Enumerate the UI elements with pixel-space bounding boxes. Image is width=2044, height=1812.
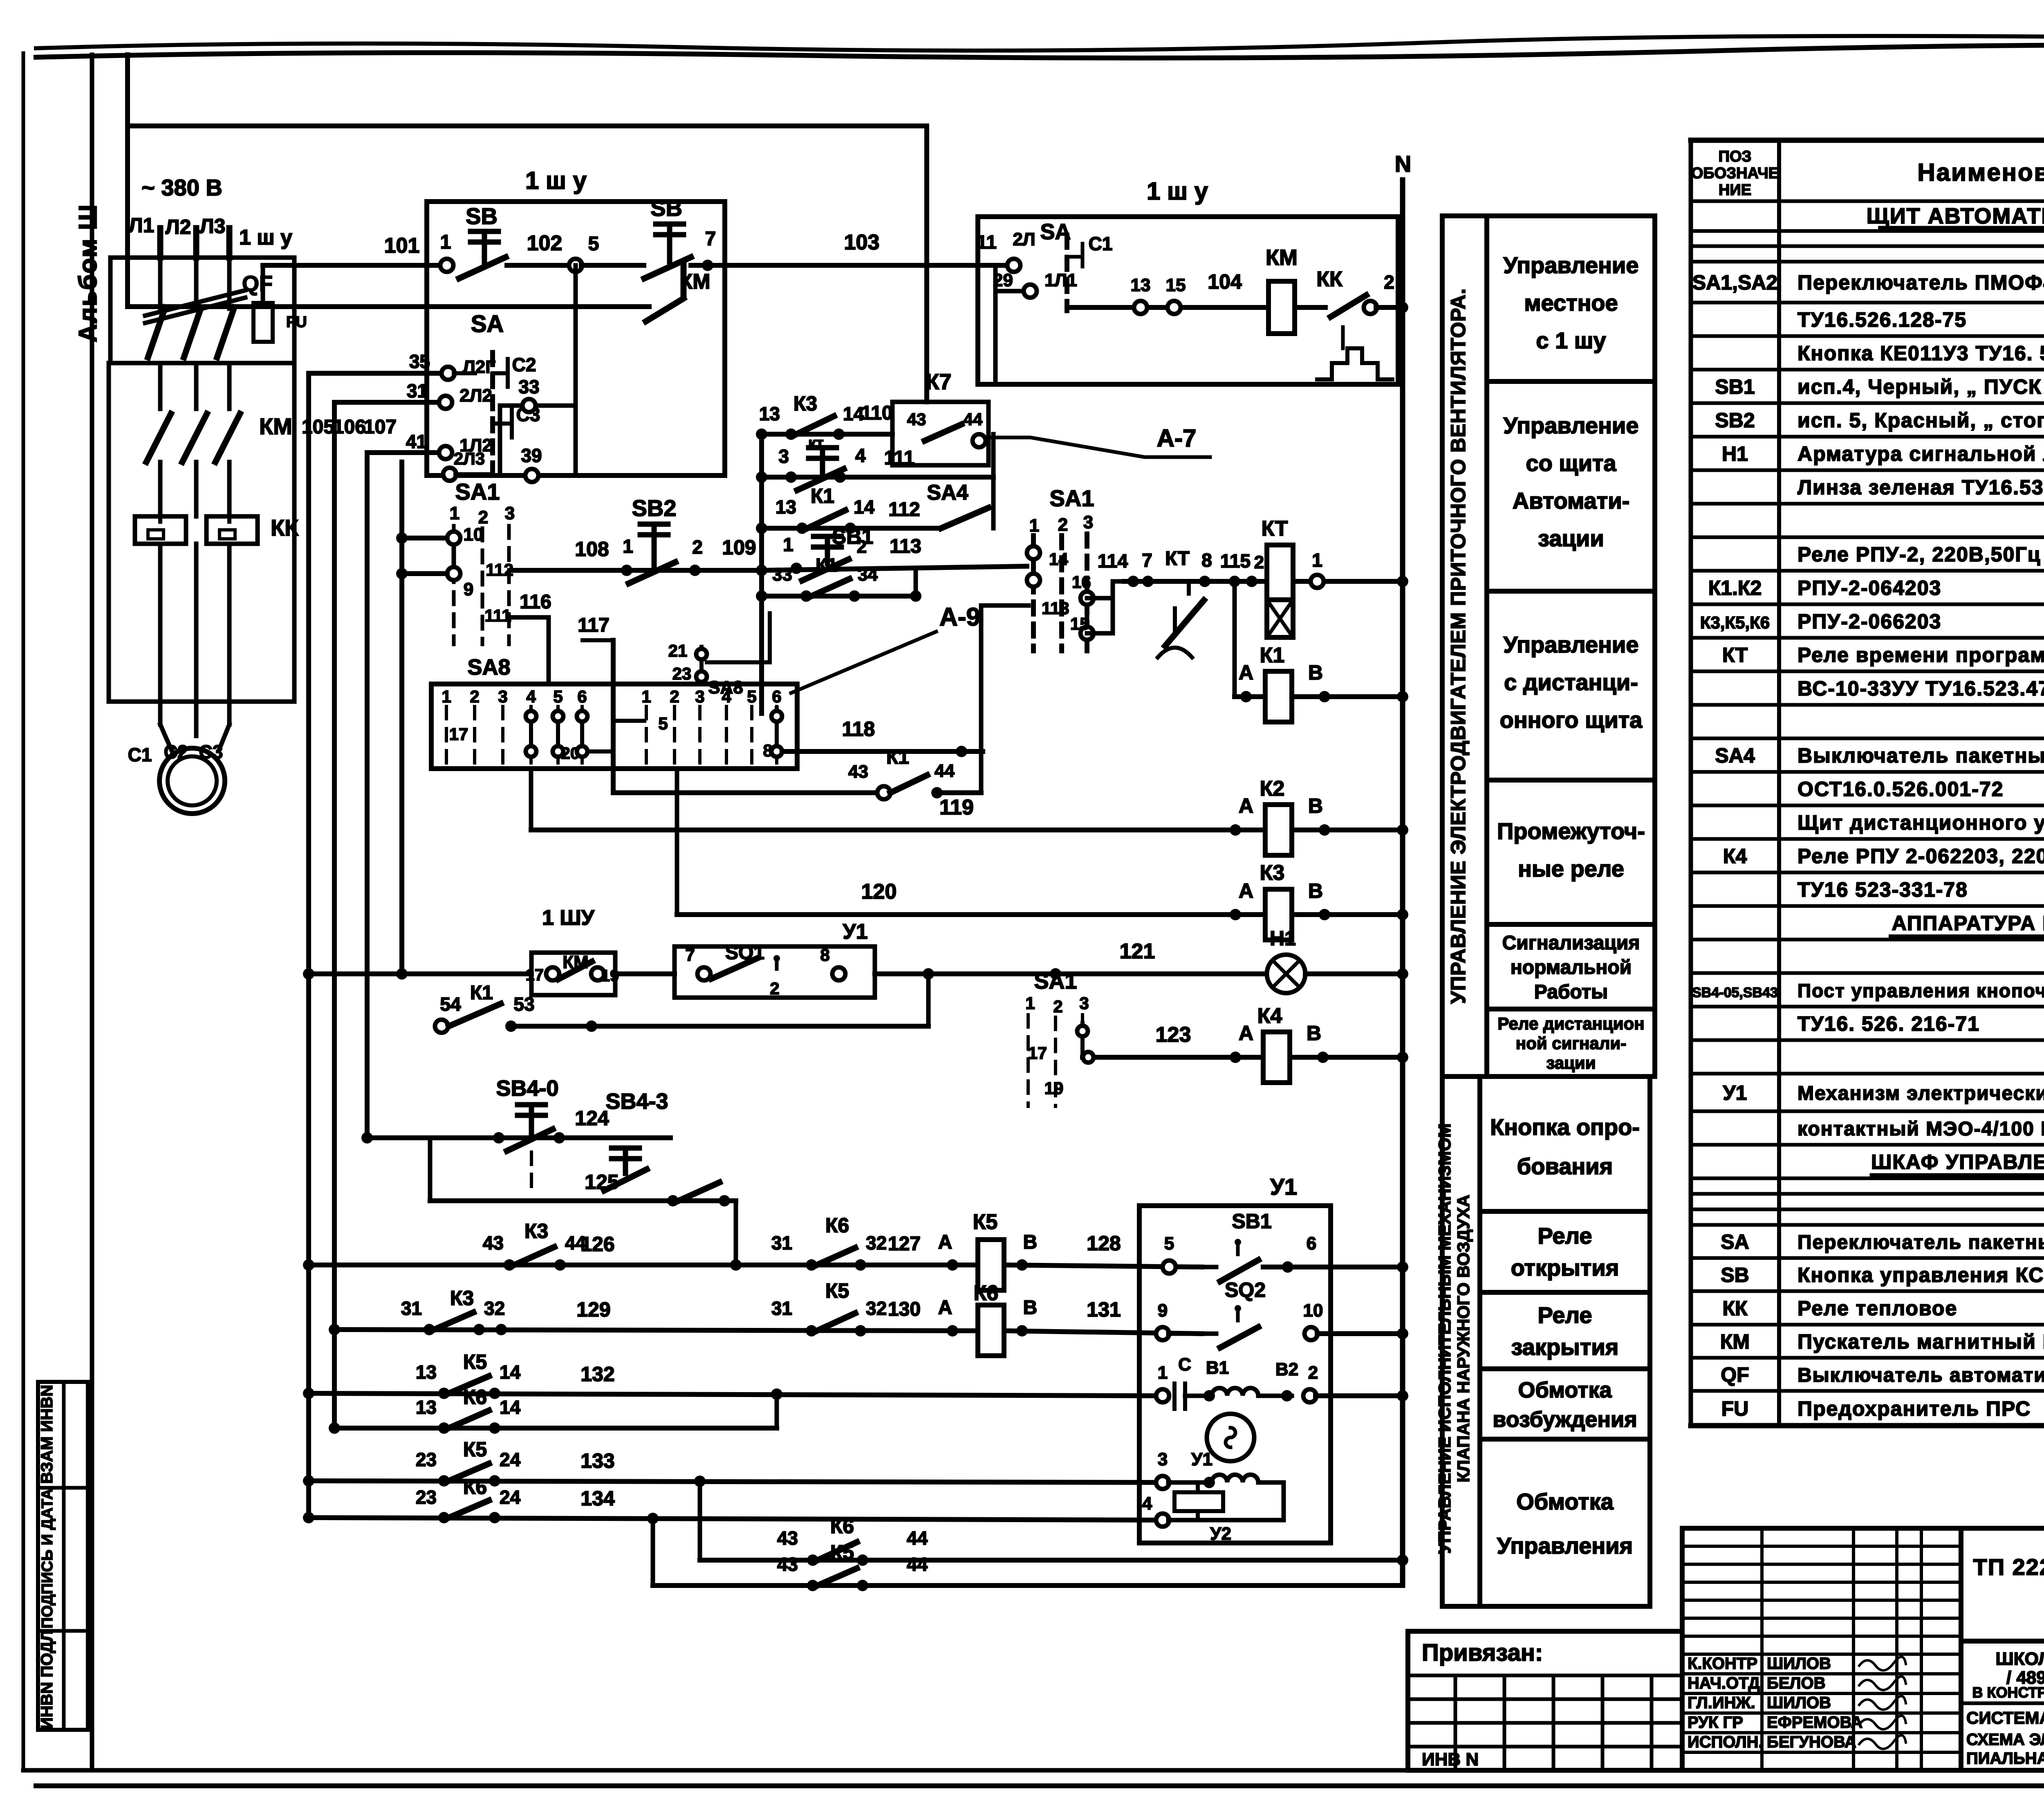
svg-text:ВС-10-33УУ ТУ16.523.476-74: ВС-10-33УУ ТУ16.523.476-74 (1797, 677, 2044, 700)
svg-text:К4: К4 (1723, 845, 1747, 868)
svg-text:FU: FU (1721, 1397, 1749, 1420)
svg-text:4: 4 (855, 445, 866, 466)
svg-text:SB: SB (1721, 1264, 1749, 1287)
svg-text:К1: К1 (886, 747, 909, 768)
svg-text:онного щита: онного щита (1500, 707, 1643, 733)
svg-text:103: 103 (844, 231, 880, 254)
svg-text:21: 21 (668, 641, 688, 660)
node 1 on 108 (621, 565, 632, 576)
svg-text:Наименование: Наименование (1917, 159, 2044, 186)
relay coil K1 rail (1235, 694, 1403, 699)
thermal release symbol (1317, 348, 1392, 379)
riser from SA1 right to 118 and K1 contact (979, 605, 984, 793)
svg-text:Привязан:: Привязан: (1422, 1639, 1543, 1666)
svg-text:К3: К3 (1260, 861, 1285, 885)
svg-text:43: 43 (848, 762, 868, 782)
wire 33-34 contact K1 (762, 594, 916, 599)
svg-text:133: 133 (580, 1449, 614, 1472)
svg-text:Управление: Управление (1504, 632, 1639, 657)
svg-text:111: 111 (884, 447, 915, 469)
svg-text:Работы: Работы (1534, 981, 1608, 1003)
school project name box (1961, 1641, 2044, 1770)
svg-text:3: 3 (695, 687, 704, 706)
svg-text:К5: К5 (463, 1350, 487, 1373)
svg-text:1 ш у: 1 ш у (239, 226, 292, 249)
svg-text:107: 107 (364, 416, 397, 438)
svg-text:117: 117 (578, 614, 609, 636)
wire 120 relay K3 (675, 771, 679, 915)
svg-text:13: 13 (775, 496, 796, 518)
svg-text:К1: К1 (1260, 644, 1285, 667)
SA8 left pin6 output (587, 749, 613, 754)
svg-text:Кнопка КЕ011У3 ТУ16. 526.407-7: Кнопка КЕ011У3 ТУ16. 526.407-76 (1797, 342, 2044, 365)
wire 101 (263, 263, 441, 268)
svg-text:возбуждения: возбуждения (1493, 1407, 1637, 1432)
ladder feed bus (759, 434, 764, 713)
svg-text:2Л: 2Л (1013, 229, 1035, 249)
pin 116 link from SA1 left (509, 615, 549, 620)
svg-text:ШИЛОВ: ШИЛОВ (1767, 1655, 1831, 1673)
node 5 (569, 259, 582, 272)
svg-text:К3: К3 (450, 1287, 474, 1310)
svg-text:54: 54 (440, 993, 461, 1015)
svg-text:Реле: Реле (1537, 1223, 1592, 1249)
SA1 left rail 9 (402, 571, 447, 576)
svg-text:Реле РПУ-2, 220В,50Гц ТУ16.523: Реле РПУ-2, 220В,50Гц ТУ16.523.331-78 (1797, 543, 2044, 566)
svg-text:14: 14 (854, 496, 875, 518)
svg-text:112: 112 (888, 499, 920, 520)
svg-text:109: 109 (722, 536, 756, 559)
function box control winding (1480, 1439, 1650, 1606)
svg-text:31: 31 (407, 380, 428, 401)
svg-text:2: 2 (1384, 271, 1394, 293)
svg-text:ОБОЗНАЧЕ: ОБОЗНАЧЕ (1691, 165, 1779, 182)
contactor coil KM (1269, 281, 1295, 334)
svg-text:43: 43 (483, 1232, 504, 1254)
svg-text:101: 101 (384, 234, 420, 258)
thermal relay KK heaters (135, 516, 186, 544)
svg-text:ТП 222-1-467. 86: ТП 222-1-467. 86 (1973, 1554, 2044, 1580)
function box intermediate relays (1487, 780, 1655, 924)
svg-text:14: 14 (500, 1397, 521, 1418)
svg-text:Переключатель пакетный ППЗ-10/: Переключатель пакетный ППЗ-10/Н3 (1797, 1232, 2044, 1254)
svg-text:Промежуточ-: Промежуточ- (1497, 818, 1645, 844)
svg-text:местное: местное (1524, 290, 1618, 316)
wire 126 rail (303, 1259, 314, 1271)
SA terminal C3 (510, 410, 514, 437)
sheet outer border left (22, 53, 25, 1770)
node 2 wire 109 (689, 565, 701, 576)
svg-text:SB2: SB2 (1715, 409, 1755, 432)
svg-text:24: 24 (500, 1487, 521, 1508)
svg-text:113: 113 (890, 536, 921, 557)
circuit breaker QF box (110, 258, 294, 363)
svg-text:121: 121 (1120, 940, 1155, 963)
svg-text:ной сигнали-: ной сигнали- (1516, 1034, 1626, 1053)
top distribution wire (128, 123, 927, 128)
svg-text:У1: У1 (1270, 1174, 1297, 1200)
project code box (1961, 1528, 2044, 1641)
wire 118 (782, 749, 983, 754)
svg-text:2: 2 (1053, 997, 1062, 1016)
svg-text:У1: У1 (1723, 1081, 1747, 1104)
svg-text:К6: К6 (825, 1214, 849, 1237)
svg-text:1: 1 (783, 534, 793, 555)
U1 bottom rail (1156, 1514, 1169, 1527)
svg-text:134: 134 (580, 1487, 615, 1510)
svg-text:SA: SA (1721, 1231, 1749, 1254)
riser to K1 coil (1233, 581, 1237, 697)
svg-text:SA4: SA4 (1715, 744, 1755, 767)
svg-text:2: 2 (1058, 515, 1068, 535)
function box closing relay (1480, 1292, 1650, 1369)
svg-text:КК: КК (1722, 1297, 1748, 1320)
sheet frame top double line (36, 36, 2044, 51)
svg-text:ПОДПИСЬ И ДАТА: ПОДПИСЬ И ДАТА (39, 1489, 56, 1628)
drop to terminal 29 (993, 265, 998, 384)
svg-text:17: 17 (526, 966, 544, 984)
svg-text:С1: С1 (1089, 233, 1113, 254)
svg-text:В1: В1 (1206, 1358, 1229, 1378)
svg-text:КК: КК (1316, 267, 1342, 291)
wire 132 rail (303, 1388, 314, 1399)
svg-text:13: 13 (416, 1397, 437, 1418)
svg-text:1 ШУ: 1 ШУ (542, 906, 595, 930)
svg-text:зации: зации (1538, 525, 1604, 551)
svg-text:43: 43 (907, 410, 926, 429)
svg-text:31: 31 (771, 1298, 792, 1319)
bus wire 1L2 drop (399, 462, 404, 974)
node 1 terminal (440, 259, 453, 272)
svg-text:1 ш у: 1 ш у (525, 167, 587, 194)
svg-text:1: 1 (1025, 993, 1035, 1013)
control winding U1 (1156, 1476, 1169, 1489)
svg-text:2: 2 (857, 537, 867, 557)
sheet frame bottom double line (23, 1768, 2044, 1773)
svg-text:К3,К5,К6: К3,К5,К6 (1700, 613, 1770, 632)
svg-text:13: 13 (1131, 275, 1151, 295)
svg-text:Реле тепловое: Реле тепловое (1797, 1297, 1957, 1320)
svg-text:ТУ16.526.128-75: ТУ16.526.128-75 (1797, 308, 1967, 331)
svg-text:113: 113 (1042, 599, 1069, 618)
SA terminal C2 (506, 359, 510, 387)
svg-text:В: В (1308, 794, 1323, 817)
svg-text:БЕГУНОВА: БЕГУНОВА (1767, 1733, 1856, 1751)
svg-text:КЛАПАНА НАРУЖНОГО ВОЗДУХА: КЛАПАНА НАРУЖНОГО ВОЗДУХА (1454, 1195, 1473, 1482)
svg-text:Механизм электрический однообо: Механизм электрический однооборотный (1797, 1083, 2044, 1104)
KM aux contact box (531, 953, 615, 995)
contact K1 53-54 (435, 1020, 448, 1033)
callout line A-7 (988, 437, 1210, 457)
ladder right vertical (991, 434, 996, 528)
svg-text:N: N (1395, 151, 1411, 177)
svg-text:Автомати-: Автомати- (1513, 488, 1630, 514)
svg-text:Л2: Л2 (166, 215, 191, 238)
SA common dashed link (490, 352, 495, 472)
svg-text:1: 1 (623, 536, 633, 557)
svg-text:31: 31 (771, 1232, 792, 1254)
svg-text:Пускатель магнитный ПМЕ: Пускатель магнитный ПМЕ (1797, 1330, 2044, 1353)
svg-text:SA4: SA4 (927, 481, 968, 505)
wire 121 left from bus 105 (303, 968, 314, 980)
svg-text:115: 115 (1220, 550, 1251, 572)
svg-text:10: 10 (464, 525, 484, 545)
svg-text:НИЕ: НИЕ (1719, 182, 1751, 199)
svg-text:А-7: А-7 (1157, 424, 1197, 452)
svg-text:QF: QF (1721, 1363, 1749, 1386)
bus wire 107 (365, 453, 370, 1138)
svg-text:К6: К6 (974, 1281, 999, 1305)
svg-text:Кнопка управления КСГ1-12: Кнопка управления КСГ1-12 (1797, 1264, 2044, 1287)
QF crossbar (145, 290, 245, 316)
U1 button SB1 rail (1163, 1260, 1176, 1274)
phase wires below QF (158, 363, 163, 409)
svg-text:А: А (938, 1231, 953, 1253)
function box automation panel control (1487, 381, 1655, 591)
svg-text:4: 4 (1142, 1494, 1152, 1514)
svg-text:43: 43 (777, 1527, 798, 1549)
svg-text:2Л2: 2Л2 (459, 386, 492, 406)
SA output wire to KM coil (1067, 305, 1267, 310)
svg-text:125: 125 (585, 1171, 619, 1193)
svg-text:SB4-05,SB43: SB4-05,SB43 (1692, 985, 1778, 1000)
svg-text:КТ: КТ (1722, 644, 1748, 666)
function box remote panel control (1487, 591, 1655, 780)
svg-text:Н1: Н1 (1722, 442, 1748, 465)
svg-text:130: 130 (888, 1298, 921, 1320)
signature rows (1682, 1672, 1961, 1675)
svg-text:114: 114 (1098, 550, 1128, 572)
svg-text:13: 13 (759, 403, 780, 424)
riser 53 to 121 (926, 974, 931, 1026)
svg-text:Арматура сигнальной лампы АС-2: Арматура сигнальной лампы АС-220 (1797, 442, 2044, 465)
svg-text:Сигнализация: Сигнализация (1502, 932, 1640, 954)
feed wire from 118 riser (981, 603, 1029, 608)
svg-text:17: 17 (1028, 1043, 1047, 1063)
relay box K7 (892, 402, 988, 465)
svg-text:РУК ГР: РУК ГР (1688, 1713, 1743, 1731)
svg-text:123: 123 (1156, 1023, 1191, 1047)
svg-text:6: 6 (577, 687, 587, 706)
svg-text:С1: С1 (128, 744, 152, 765)
vertical from node 5 (574, 265, 578, 475)
svg-text:Управление: Управление (1504, 252, 1639, 278)
svg-text:Реле времени программное 220В,: Реле времени программное 220В, 50Гц (1797, 644, 2044, 666)
svg-text:ПИАЛЬНАЯ УПРАВЛЕНИЯ (НАЧАЛО): ПИАЛЬНАЯ УПРАВЛЕНИЯ (НАЧАЛО) (1966, 1749, 2044, 1767)
svg-text:5: 5 (747, 687, 756, 706)
svg-text:1: 1 (450, 503, 459, 523)
SA spare terminal 2L3 (443, 468, 456, 481)
svg-text:SB4-0: SB4-0 (496, 1076, 558, 1101)
svg-text:А: А (938, 1297, 953, 1319)
svg-text:116: 116 (520, 591, 551, 613)
svg-text:16: 16 (1072, 572, 1091, 592)
phase lead L1 (157, 228, 164, 258)
svg-text:41: 41 (406, 431, 427, 452)
svg-text:11: 11 (977, 231, 997, 253)
svg-text:1: 1 (440, 231, 451, 253)
svg-text:К5: К5 (973, 1210, 998, 1234)
phase lead L2 (193, 228, 199, 258)
limit switch box U1 SQ1 (675, 946, 875, 998)
SA contact row 35 L2G (309, 371, 442, 376)
svg-text:8: 8 (1201, 549, 1212, 571)
svg-text:129: 129 (576, 1298, 610, 1321)
svg-text:1: 1 (442, 687, 451, 706)
svg-text:126: 126 (580, 1233, 614, 1256)
svg-text:ШКАФ УПРАВЛЕНИЯ 1 ( ШУ): ШКАФ УПРАВЛЕНИЯ 1 ( ШУ) (1871, 1150, 2044, 1173)
terminal 1 to N (1311, 575, 1324, 588)
svg-text:24: 24 (500, 1449, 521, 1470)
svg-text:КМ: КМ (259, 413, 292, 439)
drop wire from top distribution (924, 126, 929, 402)
svg-text:Реле дистанцион: Реле дистанцион (1497, 1014, 1644, 1033)
svg-text:39: 39 (521, 445, 542, 466)
svg-text:9: 9 (1158, 1301, 1168, 1321)
svg-text:АППАРАТУРА ПО МЕСТУ: АППАРАТУРА ПО МЕСТУ (1892, 912, 2044, 935)
svg-text:К1: К1 (816, 554, 838, 576)
wire 124 (361, 1132, 373, 1144)
SA contact row 41 1L2 (367, 450, 440, 455)
svg-text:В КОНСТРУКЦИЯХ СЕРИИ 1.020-1/8: В КОНСТРУКЦИЯХ СЕРИИ 1.020-1/83 (1972, 1684, 2044, 1701)
svg-text:ЕФРЕМОВА: ЕФРЕМОВА (1767, 1713, 1862, 1731)
svg-text:ТУ16. 526. 216-71: ТУ16. 526. 216-71 (1797, 1012, 1980, 1035)
neutral bus N (1400, 180, 1405, 1585)
svg-text:15: 15 (1166, 275, 1186, 295)
svg-text:Переключатель ПМОФ45-112222/П: Переключатель ПМОФ45-112222/П-Д1 (1797, 271, 2044, 294)
svg-text:1: 1 (1029, 516, 1039, 536)
contact K1 43-44 below SA8 (613, 790, 878, 795)
latch rail wire (128, 304, 649, 309)
terminal 15 (1168, 301, 1181, 314)
callout A-9 (791, 632, 936, 693)
QF pole contacts (158, 258, 163, 309)
svg-text:Кнопка опро-: Кнопка опро- (1490, 1114, 1640, 1140)
node 33 wire (500, 404, 576, 408)
svg-text:открытия: открытия (1511, 1255, 1619, 1281)
svg-text:33: 33 (518, 376, 539, 397)
svg-text:104: 104 (1208, 270, 1242, 293)
svg-text:2: 2 (670, 687, 679, 706)
wire 128 to U1 (1004, 1265, 1202, 1267)
bus wire 105 (306, 373, 311, 1519)
svg-text:Линза зеленая ТУ16.535.426-70: Линза зеленая ТУ16.535.426-70 (1797, 476, 2044, 499)
svg-text:закрытия: закрытия (1511, 1334, 1619, 1360)
drop 124 to 125 (428, 1138, 433, 1201)
svg-text:SB1: SB1 (1715, 375, 1755, 398)
svg-text:К6: К6 (463, 1386, 487, 1408)
terminal 29 1L1 (995, 289, 1024, 294)
svg-text:44: 44 (935, 761, 955, 781)
svg-text:5: 5 (588, 233, 599, 255)
svg-text:ПОЗ: ПОЗ (1719, 148, 1752, 165)
contact K6 43-44 bottom (700, 1558, 878, 1563)
svg-text:исп.4, Черный, „ ПУСК “: исп.4, Черный, „ ПУСК “ (1797, 375, 2044, 398)
svg-text:29: 29 (993, 270, 1013, 290)
signature grid upper (1682, 1528, 1961, 1770)
svg-text:35: 35 (409, 351, 430, 372)
power enclosure outline (107, 363, 111, 702)
svg-text:УПРАВЛЕНИЕ ИСПОЛНИТЕЛЬНЫМ МЕ: УПРАВЛЕНИЕ ИСПОЛНИТЕЛЬНЫМ МЕХАНИЗМОМ (1435, 1124, 1454, 1554)
svg-text:32: 32 (484, 1298, 505, 1319)
svg-text:ИНВ N: ИНВ N (1422, 1749, 1479, 1769)
svg-text:13: 13 (416, 1361, 437, 1383)
resistor U2 (1174, 1492, 1223, 1511)
contact K6 13-14 rail (329, 1422, 340, 1434)
function box opening relay (1480, 1211, 1650, 1292)
svg-text:FU: FU (286, 314, 307, 331)
fuse FU (253, 303, 273, 342)
svg-text:К2: К2 (1260, 777, 1285, 801)
svg-text:7: 7 (1142, 549, 1152, 571)
svg-text:4: 4 (526, 687, 536, 706)
capacitor C and winding B1-B2 (1156, 1389, 1169, 1402)
specification table grid (1691, 138, 2044, 143)
svg-text:3: 3 (1079, 993, 1089, 1013)
svg-text:5: 5 (658, 714, 668, 733)
link 33-39 (498, 406, 502, 475)
svg-text:К7: К7 (926, 370, 952, 394)
wire 114 KT timing rail (1124, 579, 1403, 584)
drop 125 to 126 (734, 1201, 738, 1265)
contactor KM main contacts (146, 414, 171, 462)
sheet frame left vertical (90, 55, 94, 1770)
svg-text:1: 1 (641, 687, 651, 706)
svg-text:ИНВN ПОДЛ: ИНВN ПОДЛ (38, 1630, 56, 1729)
svg-text:Предохранитель ПРС: Предохранитель ПРС (1797, 1397, 2031, 1420)
svg-text:1: 1 (1158, 1363, 1168, 1383)
svg-text:Управление: Управление (1504, 413, 1639, 438)
svg-text:В: В (1023, 1231, 1038, 1253)
svg-text:5: 5 (553, 687, 563, 706)
wire 121 to lamp (875, 971, 1266, 976)
svg-text:~ 380 В: ~ 380 В (141, 175, 222, 200)
svg-text:У1: У1 (1191, 1449, 1213, 1469)
svg-text:Пост управления кнопочный ПКЕ-: Пост управления кнопочный ПКЕ-212-2 У3 (1797, 980, 2044, 1001)
svg-text:ТУ16 523-331-78: ТУ16 523-331-78 (1797, 878, 1968, 901)
stamp column ВЗАМ ИНВ N (38, 1382, 88, 1730)
node 7 (702, 260, 713, 271)
wire to SQ1 box (615, 971, 675, 976)
svg-text:Выключатель автоматический АК6: Выключатель автоматический АК63мг (1797, 1365, 2044, 1386)
svg-text:SA1: SA1 (455, 479, 500, 505)
svg-text:32: 32 (866, 1298, 887, 1319)
svg-text:44: 44 (964, 410, 983, 429)
svg-text:3: 3 (1083, 512, 1093, 532)
wire 129 rail (329, 1324, 340, 1335)
svg-text:3: 3 (505, 503, 515, 523)
svg-text:Реле: Реле (1537, 1302, 1592, 1328)
svg-text:7: 7 (705, 228, 716, 250)
svg-text:SB: SB (650, 195, 682, 221)
svg-text:SB2: SB2 (632, 495, 677, 521)
svg-text:53: 53 (513, 993, 534, 1015)
wire 102 (507, 263, 576, 268)
wire 103 (725, 263, 1008, 268)
wire 108 (512, 568, 621, 573)
wire 113 with button SB1 (762, 566, 1027, 570)
svg-text:1Л1: 1Л1 (1044, 270, 1077, 290)
svg-text:SA8: SA8 (708, 677, 743, 697)
wire 111 with test button (762, 475, 993, 480)
svg-text:СХЕМА ЭЛЕКТРИЧЕСКАЯ ПРИНЦИ-: СХЕМА ЭЛЕКТРИЧЕСКАЯ ПРИНЦИ- (1966, 1731, 2044, 1749)
wire 110 with contact K3 (762, 432, 892, 437)
svg-text:К5: К5 (463, 1438, 487, 1461)
svg-text:23: 23 (416, 1487, 437, 1508)
svg-text:SB: SB (466, 203, 498, 229)
wire 125 (430, 1198, 736, 1203)
svg-text:НАЧ.ОТД: НАЧ.ОТД (1688, 1674, 1760, 1692)
